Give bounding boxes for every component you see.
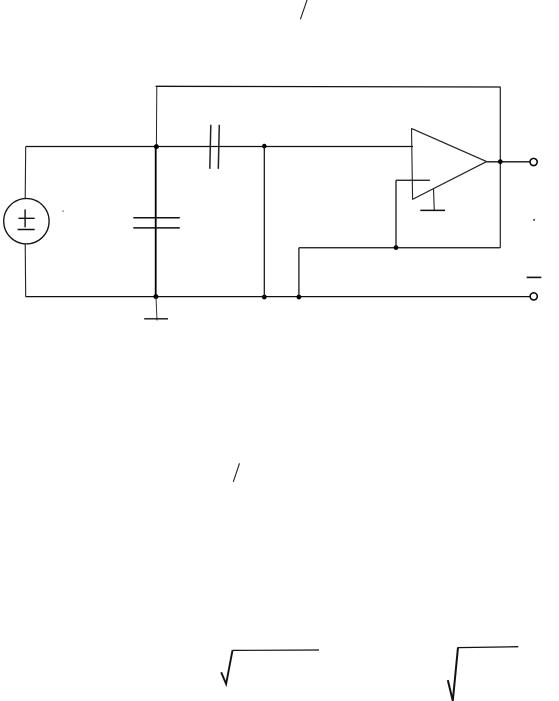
voltage source V1 circle (4, 199, 49, 244)
wire vertical x=396 (395, 180, 397, 247)
op-amp U1 triangle (411, 128, 486, 199)
terminal output bottom circle (530, 293, 537, 300)
wire vertical x=264 (263, 146, 265, 297)
node junction at x=264 top (262, 144, 267, 149)
wire feedback right vertical (499, 87, 501, 248)
speck dot right side (533, 219, 535, 221)
ground symbol at op-amp (420, 189, 445, 211)
node junction feedback to non-inverting (394, 245, 399, 250)
capacitor C1 shunt vertical wire (155, 147, 157, 297)
wire non-inverting input stub (396, 179, 430, 181)
node ground junction (153, 294, 158, 299)
node junction at x=299 bottom (297, 295, 302, 300)
wire bottom rail (26, 296, 530, 298)
slash mark middle (233, 463, 239, 482)
wire mid horizontal y=247.6 (299, 247, 500, 249)
capacitor C1 plates (133, 218, 180, 228)
node junction at x=264 bottom (262, 295, 267, 300)
ground symbol at bottom rail (144, 297, 168, 321)
wire top feedback horizontal (156, 85, 501, 88)
minus sign near bottom terminal (527, 276, 542, 278)
node output junction (498, 159, 503, 164)
voltage source plus sign (24, 209, 26, 227)
voltage source minus sign (18, 229, 35, 231)
wire op-amp output (487, 161, 530, 163)
wire vertical x=299 (298, 248, 300, 297)
wire left rail upper (24, 147, 27, 199)
wire main horizontal input rail (26, 146, 413, 148)
wire left rail lower (24, 244, 27, 297)
wire feedback left vertical (155, 87, 157, 147)
speck dot near source (62, 210, 64, 212)
sqrt radical sign 2 (448, 647, 519, 701)
capacitor C2 series plates (210, 125, 220, 169)
sqrt radical sign 1 (221, 650, 319, 684)
terminal output top circle (530, 158, 537, 165)
node junction at C1 top (154, 144, 159, 149)
slash mark top (300, 0, 307, 19)
